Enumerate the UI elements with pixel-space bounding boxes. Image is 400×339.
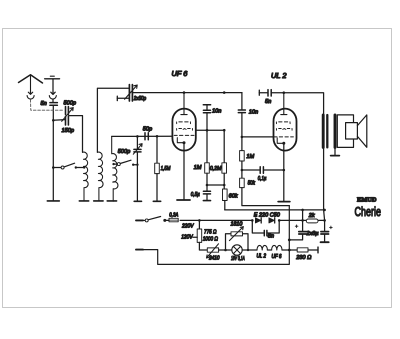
svg-text:220V: 220V [181, 224, 194, 230]
earth symbol [45, 78, 60, 80]
V1 cathode wire to ground [183, 144, 185, 200]
ground L2 [94, 200, 103, 202]
node 0,1µ [241, 169, 244, 172]
svg-text:E 220 C50: E 220 C50 [254, 212, 281, 218]
antenna [19, 75, 43, 94]
rheostat 1810 (bypass) [226, 234, 232, 250]
svg-text:10n: 10n [249, 109, 258, 115]
ground (trimmer column) [134, 200, 141, 202]
svg-text:500p: 500p [64, 101, 76, 107]
wire anode rail to output transformer [284, 93, 324, 115]
svg-text:EMUD: EMUD [357, 196, 377, 203]
output transformer T1 primary [322, 115, 325, 147]
wire secondary to ground [334, 147, 336, 155]
svg-text:0,3A: 0,3A [169, 212, 178, 218]
tube V2 UL2 envelope [274, 109, 297, 151]
svg-text:500p: 500p [118, 149, 130, 155]
svg-text:5n: 5n [265, 99, 271, 105]
capacitor 50p [145, 133, 148, 140]
trimmer capacitor 500p (L3) [134, 149, 141, 152]
tuning gang capacitor 2x50p [129, 85, 132, 101]
node rail/V1 anode [183, 91, 186, 94]
V1 control grid (dashed) [174, 134, 194, 136]
V1 screen wire to decoupling column [196, 129, 224, 131]
wire plug to capacitor 5n [52, 100, 54, 102]
resistor 60k (screen feed) [223, 189, 228, 201]
switch S1a [52, 166, 55, 169]
output transformer T1 secondary [334, 115, 337, 147]
capacitor 5n [50, 103, 58, 106]
ground (speaker) [331, 155, 340, 157]
resistor 775/1000 Ohm (dropper) [198, 220, 200, 229]
svg-text:1,5M: 1,5M [161, 166, 171, 172]
coil L2 (primary) wire up to tuning cap [97, 88, 129, 152]
wire L1 ground line at x=53 [52, 168, 54, 201]
V1 anode [181, 93, 187, 115]
svg-text:UL 2: UL 2 [271, 71, 286, 80]
dashed antenna coupling wire [31, 100, 64, 111]
resistor 230 Ohm (field/bias) [289, 249, 297, 251]
wire trimmer junction to coil L1 [69, 116, 83, 153]
resistor 50k [240, 178, 245, 187]
wire L3 top / grid row [112, 135, 173, 137]
node V2 anode [283, 91, 286, 94]
node A junction [52, 119, 55, 122]
svg-text:1810: 1810 [231, 222, 244, 228]
svg-text:10n: 10n [212, 109, 221, 115]
ground (antenna branch) [47, 200, 59, 202]
dial lamp 18V 0,1A [232, 245, 242, 255]
capacitor 10n (screen bypass) [203, 104, 210, 106]
electrolytic C 2x8µ (second) [324, 220, 326, 231]
svg-text:775 Ω: 775 Ω [204, 229, 217, 235]
V2 cathode wire to ground [283, 144, 285, 201]
wire dropper to rheostat 2410 [199, 242, 207, 250]
svg-text:60k: 60k [229, 193, 239, 199]
svg-text:8n: 8n [268, 234, 274, 240]
resistor 1M (V2 grid) [240, 151, 245, 161]
svg-text:0,5µ: 0,5µ [191, 192, 200, 198]
ground (V1 cathode) [177, 199, 190, 201]
svg-text:230 Ω: 230 Ω [295, 255, 312, 261]
B+ rail [225, 209, 325, 211]
ground (2x8µ) [321, 241, 329, 243]
ground (0,5µ) [203, 200, 210, 202]
heater winding UF6 [272, 245, 282, 250]
svg-text:150p: 150p [62, 128, 74, 134]
svg-text:2410: 2410 [208, 256, 220, 262]
svg-text:2k: 2k [308, 213, 316, 219]
mains lead lower / return wire [136, 249, 143, 251]
svg-text:Cherie: Cherie [355, 205, 382, 219]
capacitor 0,5µ [206, 185, 208, 191]
svg-text:UF 6: UF 6 [272, 254, 283, 260]
capacitor 8n (spark suppression) [252, 220, 279, 233]
capacitor 5n (V2 anode) [258, 90, 260, 95]
wire rail corner down to coupling column [241, 93, 243, 110]
ground (1,5M) [153, 200, 160, 202]
wire rectifier output [279, 219, 302, 221]
mains switch S2 [145, 219, 148, 222]
ground (V2 cathode) [278, 201, 290, 203]
V1 grid 3 (dashed) [177, 129, 193, 131]
node rail/screen column [223, 91, 226, 94]
capacitor 150p [66, 116, 69, 125]
V1 grid 2 (dashed) [177, 122, 191, 124]
mains lead upper [136, 219, 143, 221]
V1 cathode [177, 138, 183, 143]
capacitor 0,1µ [242, 169, 284, 171]
electrolytic C 2x8µ (first) [302, 210, 304, 231]
svg-text:2x8µ: 2x8µ [306, 231, 319, 237]
120V tap [193, 236, 197, 238]
wire trimmer column to ground [136, 136, 138, 201]
coil L3 (secondary/grid coil) [112, 136, 118, 201]
svg-text:18V 0,1A: 18V 0,1A [231, 256, 245, 262]
switch S1b tap on L3 [112, 163, 114, 165]
svg-text:1000 Ω: 1000 Ω [203, 237, 219, 243]
heater winding UL2 [257, 245, 267, 250]
V2 grid 2 (dashed) [276, 122, 290, 124]
resistor 1M (V1 grid leak) [206, 130, 208, 163]
diode D2 [269, 218, 275, 223]
ground L1 [79, 200, 88, 202]
svg-text:0,1µ: 0,1µ [258, 176, 267, 182]
capacitor 10n (coupling) [238, 110, 245, 113]
wire primary down to B+ rail [324, 147, 325, 220]
wire fuse to rectifier [180, 219, 252, 221]
resistor 0,2M [223, 130, 225, 163]
coil L2 [97, 152, 103, 201]
V2 grid 3 (dashed) [276, 129, 292, 131]
node cathode-bias row [207, 184, 224, 186]
node lamp/1810 left [224, 249, 227, 252]
wire 5n down to node A [52, 106, 54, 168]
coil L1 (antenna coil) [83, 152, 89, 201]
speaker magnet [346, 123, 358, 139]
svg-text:50p: 50p [143, 127, 152, 133]
svg-text:0,2M: 0,2M [210, 166, 222, 172]
svg-text:1M: 1M [246, 154, 254, 160]
svg-text:UL 2: UL 2 [257, 253, 267, 259]
wire 50k to back-bias line [242, 188, 289, 206]
V2 anode top [281, 93, 287, 115]
svg-text:50k: 50k [248, 180, 256, 186]
anode supply rail [133, 92, 242, 94]
node V2 grid [241, 136, 244, 139]
resistor 2k (smoothing) [301, 219, 304, 222]
wire earth to plug [51, 80, 55, 95]
wire grid to tube V2 [242, 136, 274, 138]
V2 cathode [277, 138, 283, 143]
wire node A to 150p [53, 119, 65, 122]
speaker cone [357, 115, 366, 147]
svg-text:2x50p: 2x50p [133, 96, 146, 102]
svg-text:1M: 1M [194, 165, 202, 171]
rheostat 2410 [207, 248, 218, 252]
ground L3 [107, 200, 116, 202]
resistor 1,5M [156, 136, 158, 163]
diode D1 [255, 218, 261, 223]
antenna plug connector [28, 91, 32, 95]
tube V1 UF6 envelope [172, 109, 195, 151]
svg-text:120V: 120V [181, 235, 194, 241]
V2 control grid (dashed) [274, 136, 293, 138]
fuse 0,3A [169, 218, 178, 222]
speaker LS1 frame [337, 115, 353, 147]
trimmer capacitor 500p (antenna) [66, 107, 69, 115]
svg-text:5n: 5n [41, 101, 47, 107]
svg-text:UF 6: UF 6 [172, 69, 189, 78]
